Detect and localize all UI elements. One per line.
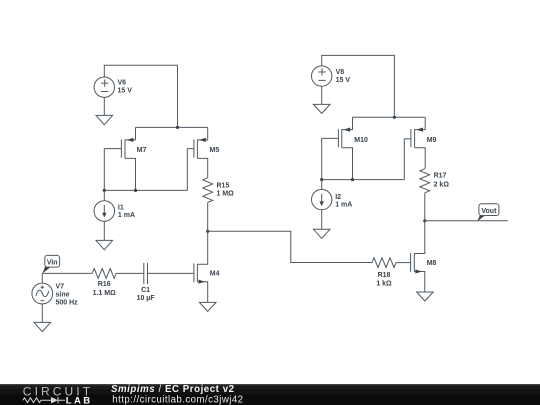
svg-text:LAB: LAB [66, 396, 93, 405]
wire R16 to C1 [116, 272, 144, 274]
svg-text:1.1 MΩ: 1.1 MΩ [93, 290, 117, 297]
wire PMOS source rail right stage [353, 116, 426, 118]
transistor M8 [411, 221, 425, 292]
wire V6 top to VDD rail [104, 65, 177, 127]
ground under V7 [34, 322, 51, 331]
transistor M10 [322, 117, 353, 179]
ground under I1 [96, 240, 113, 249]
svg-text:http://circuitlab.com/c3jwj42: http://circuitlab.com/c3jwj42 [112, 394, 243, 405]
wire I1 bottom [103, 221, 105, 240]
svg-text:M10: M10 [354, 137, 368, 144]
svg-text:1 MΩ: 1 MΩ [217, 190, 235, 197]
transistor M5 [187, 127, 207, 177]
svg-text:500 Hz: 500 Hz [56, 299, 79, 306]
svg-text:V6: V6 [118, 80, 127, 87]
transistor M7 [104, 127, 135, 190]
svg-text:V7: V7 [56, 284, 65, 291]
footer bar [0, 384, 540, 405]
wire V6 bottom [103, 97, 105, 115]
wire R17 bottom to output node [424, 193, 426, 221]
voltage source V6 [94, 77, 114, 97]
net flag Vout [477, 204, 499, 222]
transistor M4 [148, 231, 208, 302]
node Vout [423, 219, 426, 222]
voltage source V7 [32, 273, 53, 304]
svg-text:1 mA: 1 mA [118, 212, 135, 219]
svg-text:M9: M9 [427, 137, 437, 144]
node stage1 output [206, 230, 209, 233]
svg-text:Vout: Vout [481, 208, 497, 215]
svg-text:10 µF: 10 µF [137, 295, 156, 302]
ground under M4 [199, 302, 216, 311]
wire stage1 out to stage2 gate [208, 231, 372, 262]
svg-text:1 mA: 1 mA [335, 202, 352, 209]
wire I2 bottom [321, 210, 323, 230]
wire M9 gate riser [403, 139, 405, 180]
wire R18 to M8 gate [396, 262, 410, 264]
resistor R17 [420, 169, 430, 193]
node I2 top [320, 178, 323, 181]
wire V8 bottom [321, 86, 323, 104]
svg-text:15 V: 15 V [336, 77, 351, 84]
svg-text:Vin: Vin [47, 259, 58, 266]
svg-text:R16: R16 [98, 281, 111, 288]
svg-text:2 kΩ: 2 kΩ [434, 181, 450, 188]
svg-text:I1: I1 [118, 204, 124, 211]
current source I2 [312, 180, 332, 210]
svg-text:M7: M7 [137, 147, 147, 154]
wire mirror node rail [104, 189, 187, 191]
wire output [425, 220, 508, 222]
current source I1 [94, 190, 115, 221]
svg-text:M4: M4 [210, 270, 220, 277]
node M10 drain [351, 178, 354, 181]
wire M5 gate riser [186, 149, 188, 191]
ground under V8 [313, 104, 330, 113]
wire V8 top to VDD rail [322, 55, 395, 117]
svg-text:15 V: 15 V [118, 88, 133, 95]
svg-text:C1: C1 [141, 287, 150, 294]
resistor R16 [92, 269, 116, 279]
wire PMOS source rail left stage [136, 126, 208, 128]
wire M10 gate to mirror node [321, 138, 323, 179]
voltage source V8 [312, 66, 332, 86]
net flag Vin [42, 255, 59, 273]
wire Vin to R16 [42, 272, 92, 274]
svg-text:1 kΩ: 1 kΩ [376, 280, 392, 287]
resistor R15 [203, 178, 213, 203]
wire mirror node rail right [322, 179, 405, 181]
svg-text:R18: R18 [378, 272, 391, 279]
ground under V6 [96, 115, 113, 124]
ground under I2 [313, 229, 330, 238]
logo resistor-diode glyph [23, 397, 65, 404]
node M7 drain [134, 189, 137, 192]
wire M7 gate to mirror node [103, 149, 105, 191]
svg-text:M8: M8 [427, 260, 437, 267]
transistor M9 [404, 117, 425, 169]
svg-text:M5: M5 [210, 147, 220, 154]
svg-text:I2: I2 [335, 194, 341, 201]
wire R15 bottom to node [207, 202, 209, 231]
node VDD rail junction [176, 126, 179, 129]
node I1 top [103, 189, 106, 192]
svg-text:R17: R17 [434, 173, 447, 180]
svg-text:V8: V8 [336, 69, 345, 76]
node VDD rail junction right [393, 116, 396, 119]
ground under M8 [417, 292, 434, 301]
svg-text:sine: sine [56, 291, 70, 298]
capacitor C1 [144, 263, 148, 284]
wire V7 bottom [41, 304, 43, 323]
resistor R18 [372, 258, 396, 268]
svg-text:R15: R15 [217, 183, 230, 190]
